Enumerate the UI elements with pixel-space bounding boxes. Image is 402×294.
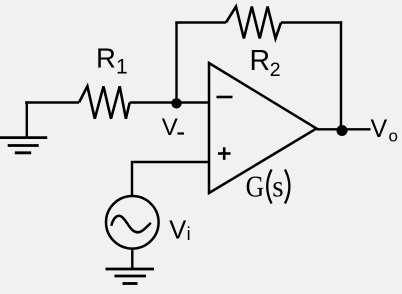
svg-text:i: i bbox=[187, 224, 191, 244]
wire source to ground stem bbox=[131, 248, 133, 270]
svg-text:R: R bbox=[250, 45, 271, 77]
source sine wave bbox=[111, 216, 151, 233]
source Vi circle bbox=[106, 196, 159, 249]
resistor R2 bbox=[226, 7, 281, 39]
svg-text:G: G bbox=[246, 170, 265, 204]
wire feedback top left vertical (node V- up to R2) bbox=[175, 23, 177, 104]
wire from source up to plus input bbox=[131, 161, 133, 196]
svg-text:o: o bbox=[389, 127, 398, 146]
label G(s) bbox=[246, 170, 290, 204]
wire feedback top horizontal right segment bbox=[281, 21, 342, 23]
svg-text:V: V bbox=[371, 115, 388, 143]
wire from R1 to op-amp bbox=[130, 101, 209, 103]
wire op-amp output bbox=[317, 128, 371, 130]
svg-text:1: 1 bbox=[116, 56, 128, 79]
svg-text:V: V bbox=[162, 114, 178, 141]
op-amp triangle bbox=[209, 63, 317, 193]
op-amp minus input sign bbox=[217, 96, 233, 99]
wire plus input horizontal bbox=[133, 161, 209, 163]
svg-text:2: 2 bbox=[270, 59, 281, 81]
ground left bbox=[0, 101, 47, 153]
ground bottom bbox=[106, 269, 155, 284]
wire feedback top horizontal left segment bbox=[175, 21, 226, 23]
node V- junction dot bbox=[171, 98, 181, 108]
svg-text:R: R bbox=[96, 42, 116, 73]
node output junction dot bbox=[337, 125, 348, 136]
resistor R1 bbox=[79, 86, 130, 118]
svg-text:s: s bbox=[272, 170, 283, 204]
op-amp plus input sign bbox=[218, 147, 231, 160]
wire R1 input (left ground corner to op-amp minus input) bbox=[25, 101, 79, 103]
svg-text:V: V bbox=[169, 217, 186, 245]
wire feedback right vertical (down to output node) bbox=[340, 21, 342, 130]
